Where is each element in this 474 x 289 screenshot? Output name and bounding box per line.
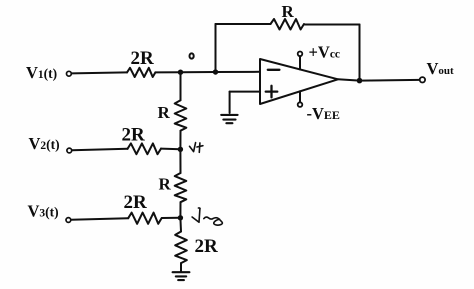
junction node (inverting input / feedback) (213, 69, 218, 74)
wire V2 terminal to resistor (72, 149, 128, 150)
wire feedback right vertical (359, 25, 361, 81)
input terminal V3(t) (28, 202, 71, 223)
wire V3 terminal to resistor (71, 218, 128, 220)
svg-text:V1(t): V1(t) (26, 63, 57, 82)
svg-text:2R: 2R (195, 236, 219, 257)
node label o (190, 53, 194, 58)
node b (junction V2/ladder) (178, 147, 183, 152)
svg-text:+Vcc: +Vcc (309, 42, 341, 61)
wire feedback left vertical (215, 24, 217, 72)
input terminal V2(t) (29, 134, 72, 153)
resistor R (ladder upper) (158, 100, 187, 130)
ground (op-amp reference) (221, 115, 237, 123)
output terminal Vout (420, 59, 454, 83)
input terminal V1(t) (26, 63, 71, 82)
wire resistor to ground (180, 263, 182, 271)
svg-text:2R: 2R (131, 48, 155, 69)
wire junction to op-amp inverting input (216, 71, 261, 73)
resistor 2R (V3 branch) (124, 192, 162, 224)
wire node a down to resistor R1 (180, 72, 182, 100)
op-amp +Vcc pin (298, 42, 340, 69)
svg-text:2R: 2R (124, 192, 148, 213)
wire resistor R1 to node b (179, 131, 181, 149)
node c (junction V3/ladder) (178, 215, 183, 220)
annotation mark v1 (handwritten) (190, 143, 203, 153)
wire feedback top right (305, 24, 360, 26)
node a (junction V1/ladder) (178, 70, 183, 75)
wire resistor to node b (161, 148, 180, 151)
svg-text:V2(t): V2(t) (29, 134, 60, 153)
resistor 2R (V2 branch) (122, 124, 162, 154)
resistor R (feedback) (271, 2, 305, 30)
wire feedback top left (216, 23, 271, 25)
ground (ladder terminator) (173, 272, 190, 280)
wire output to Vout terminal (360, 79, 420, 82)
resistor 2R (ladder terminator) (175, 232, 218, 264)
svg-text:2R: 2R (122, 124, 146, 145)
resistor R (ladder lower) (159, 173, 187, 202)
svg-text:R: R (282, 2, 295, 21)
op-amp -VEE pin (298, 91, 340, 123)
op-amp U1 (260, 59, 338, 104)
wire op-amp noninverting input (230, 91, 260, 93)
wire node b down to resistor R2 (179, 149, 181, 173)
svg-text:R: R (159, 174, 172, 193)
wire resistor to node c (162, 217, 180, 219)
resistor 2R (V1 branch) (127, 48, 155, 77)
wire node a to feedback junction (181, 71, 216, 73)
svg-text:V3(t): V3(t) (28, 202, 59, 221)
svg-text:R: R (158, 103, 171, 122)
svg-text:-VEE: -VEE (307, 104, 340, 123)
node output junction (357, 78, 363, 84)
annotation mark v2 (handwritten scrawl) (192, 208, 222, 225)
wire node c down to resistor 2R (179, 218, 182, 232)
wire op-amp output (338, 79, 360, 80)
wire resistor R2 to node c (179, 202, 181, 218)
wire V1 terminal to resistor (72, 72, 127, 73)
wire resistor to node a (155, 71, 180, 73)
wire noninverting input to ground (229, 92, 231, 113)
svg-text:Vout: Vout (427, 59, 455, 78)
